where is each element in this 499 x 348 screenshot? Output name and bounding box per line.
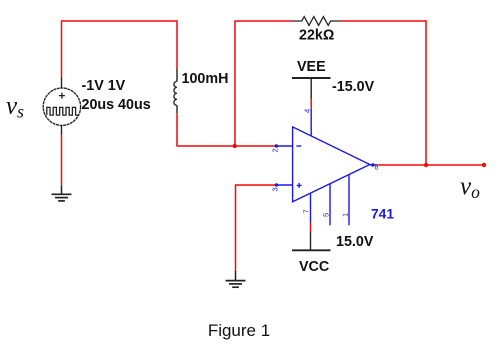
svg-text:741: 741 xyxy=(371,206,394,221)
op-amp noninverting stub xyxy=(276,184,293,186)
svg-text:vs: vs xyxy=(6,93,24,122)
svg-text:VEE: VEE xyxy=(297,59,326,75)
wire feedback vertical right xyxy=(425,20,427,165)
inductor 100mH top lead xyxy=(176,68,178,81)
power VCC stem xyxy=(310,232,312,251)
svg-text:20us 40us: 20us 40us xyxy=(82,97,151,113)
wire feedback vertical left xyxy=(234,21,236,146)
voltage source VS top lead xyxy=(61,78,63,89)
svg-text:-1V 1V: -1V 1V xyxy=(82,78,126,94)
resistor 22k zigzag xyxy=(292,17,339,26)
svg-text:Figure 1: Figure 1 xyxy=(208,321,270,340)
wire resistor right horizontal xyxy=(339,20,426,22)
node endpoint vo xyxy=(482,163,486,167)
op-amp minus sign xyxy=(296,145,301,147)
wire inductor top vertical xyxy=(176,20,178,68)
svg-text:22kΩ: 22kΩ xyxy=(299,28,334,44)
wire inverting input horizontal xyxy=(176,145,276,147)
wire left vertical from top to source xyxy=(61,20,63,77)
wire inductor bottom vertical xyxy=(176,113,178,146)
op-amp U1 triangle xyxy=(293,127,370,202)
wire VCC pin red segment xyxy=(310,223,312,232)
junction node at inverting input xyxy=(233,144,237,148)
op-amp inverting stub dot xyxy=(275,144,278,147)
op-amp noninverting stub dot xyxy=(275,183,278,186)
svg-text:2: 2 xyxy=(270,148,279,152)
svg-text:3: 3 xyxy=(270,187,279,191)
wire VEE pin red segment xyxy=(310,99,312,108)
voltage source VS square wave glyph xyxy=(47,107,79,115)
inductor 100mH bottom lead xyxy=(176,105,178,113)
junction node at output feedback xyxy=(424,163,428,167)
inductor 100mH coil xyxy=(174,81,177,105)
svg-text:6: 6 xyxy=(375,165,379,172)
svg-text:vo: vo xyxy=(460,173,480,202)
ground at source xyxy=(52,185,72,201)
op-amp pin 1 line xyxy=(348,175,350,226)
op-amp pin 4 line xyxy=(310,108,312,136)
svg-text:4: 4 xyxy=(303,109,312,113)
svg-text:15.0V: 15.0V xyxy=(336,234,374,250)
power VCC bar xyxy=(292,249,331,251)
wire top-left horizontal from source to inductor xyxy=(62,20,178,22)
ground at noninverting branch xyxy=(226,271,246,288)
voltage source VS plus sign xyxy=(59,93,65,99)
svg-text:-15.0V: -15.0V xyxy=(332,79,375,95)
svg-text:100mH: 100mH xyxy=(182,71,229,87)
svg-text:VCC: VCC xyxy=(299,259,329,275)
power VEE stem xyxy=(310,78,312,99)
svg-text:1: 1 xyxy=(341,213,350,217)
wire noninverting input horizontal xyxy=(236,184,277,186)
op-amp plus sign xyxy=(297,183,302,188)
wire noninverting branch vertical to ground xyxy=(235,184,237,270)
wire output horizontal xyxy=(376,164,484,166)
op-amp pin 7 line xyxy=(310,193,312,223)
op-amp output dot xyxy=(371,163,374,166)
op-amp output stub xyxy=(370,164,377,166)
wire resistor left horizontal xyxy=(234,20,292,22)
op-amp pin 5 line xyxy=(329,184,331,226)
svg-text:5: 5 xyxy=(322,213,331,217)
wire source bottom to ground xyxy=(61,135,63,186)
svg-text:7: 7 xyxy=(302,209,311,213)
power VEE bar xyxy=(292,77,331,79)
op-amp inverting stub xyxy=(276,145,293,147)
voltage source VS circle xyxy=(43,88,80,125)
voltage source VS bottom lead xyxy=(61,125,63,134)
